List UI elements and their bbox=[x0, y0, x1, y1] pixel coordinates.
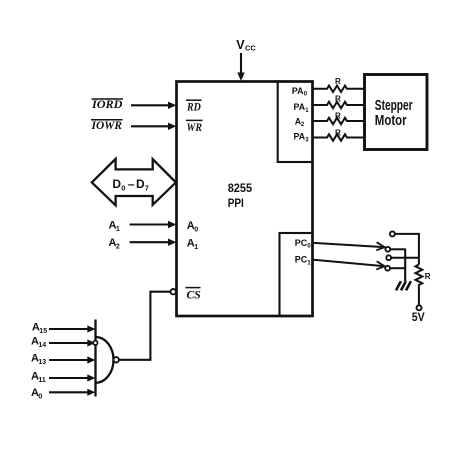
svg-text:–: – bbox=[128, 177, 135, 191]
svg-text:D: D bbox=[112, 177, 121, 191]
svg-text:PC: PC bbox=[295, 238, 308, 248]
svg-text:PPI: PPI bbox=[228, 196, 244, 210]
svg-text:PC: PC bbox=[295, 255, 308, 265]
svg-text:14: 14 bbox=[38, 342, 46, 349]
svg-text:1: 1 bbox=[307, 260, 311, 267]
svg-text:WR: WR bbox=[187, 120, 203, 134]
svg-text:0: 0 bbox=[194, 226, 198, 233]
svg-text:0: 0 bbox=[307, 243, 311, 250]
svg-text:13: 13 bbox=[38, 359, 46, 366]
svg-text:5V: 5V bbox=[412, 312, 425, 324]
svg-text:Stepper: Stepper bbox=[375, 98, 413, 114]
svg-text:D: D bbox=[136, 177, 145, 191]
svg-text:R: R bbox=[335, 77, 341, 86]
svg-text:8255: 8255 bbox=[228, 181, 253, 195]
svg-text:R: R bbox=[425, 272, 431, 281]
svg-text:PA: PA bbox=[294, 132, 306, 142]
svg-text:Motor: Motor bbox=[375, 113, 407, 129]
svg-text:RD: RD bbox=[186, 99, 201, 113]
svg-text:15: 15 bbox=[39, 328, 47, 335]
svg-text:7: 7 bbox=[145, 184, 149, 193]
svg-text:CS: CS bbox=[187, 287, 202, 301]
svg-text:R: R bbox=[335, 129, 341, 138]
svg-text:0: 0 bbox=[38, 393, 42, 400]
svg-text:CC: CC bbox=[245, 44, 256, 53]
svg-text:1: 1 bbox=[194, 244, 198, 251]
svg-text:0: 0 bbox=[121, 184, 125, 193]
svg-text:11: 11 bbox=[38, 377, 46, 384]
svg-text:V: V bbox=[236, 38, 245, 52]
svg-text:PA: PA bbox=[294, 102, 306, 112]
svg-text:1: 1 bbox=[116, 226, 120, 233]
svg-text:R: R bbox=[335, 95, 341, 104]
svg-text:R: R bbox=[335, 112, 341, 121]
svg-text:2: 2 bbox=[116, 243, 120, 250]
svg-text:PA: PA bbox=[292, 86, 304, 96]
